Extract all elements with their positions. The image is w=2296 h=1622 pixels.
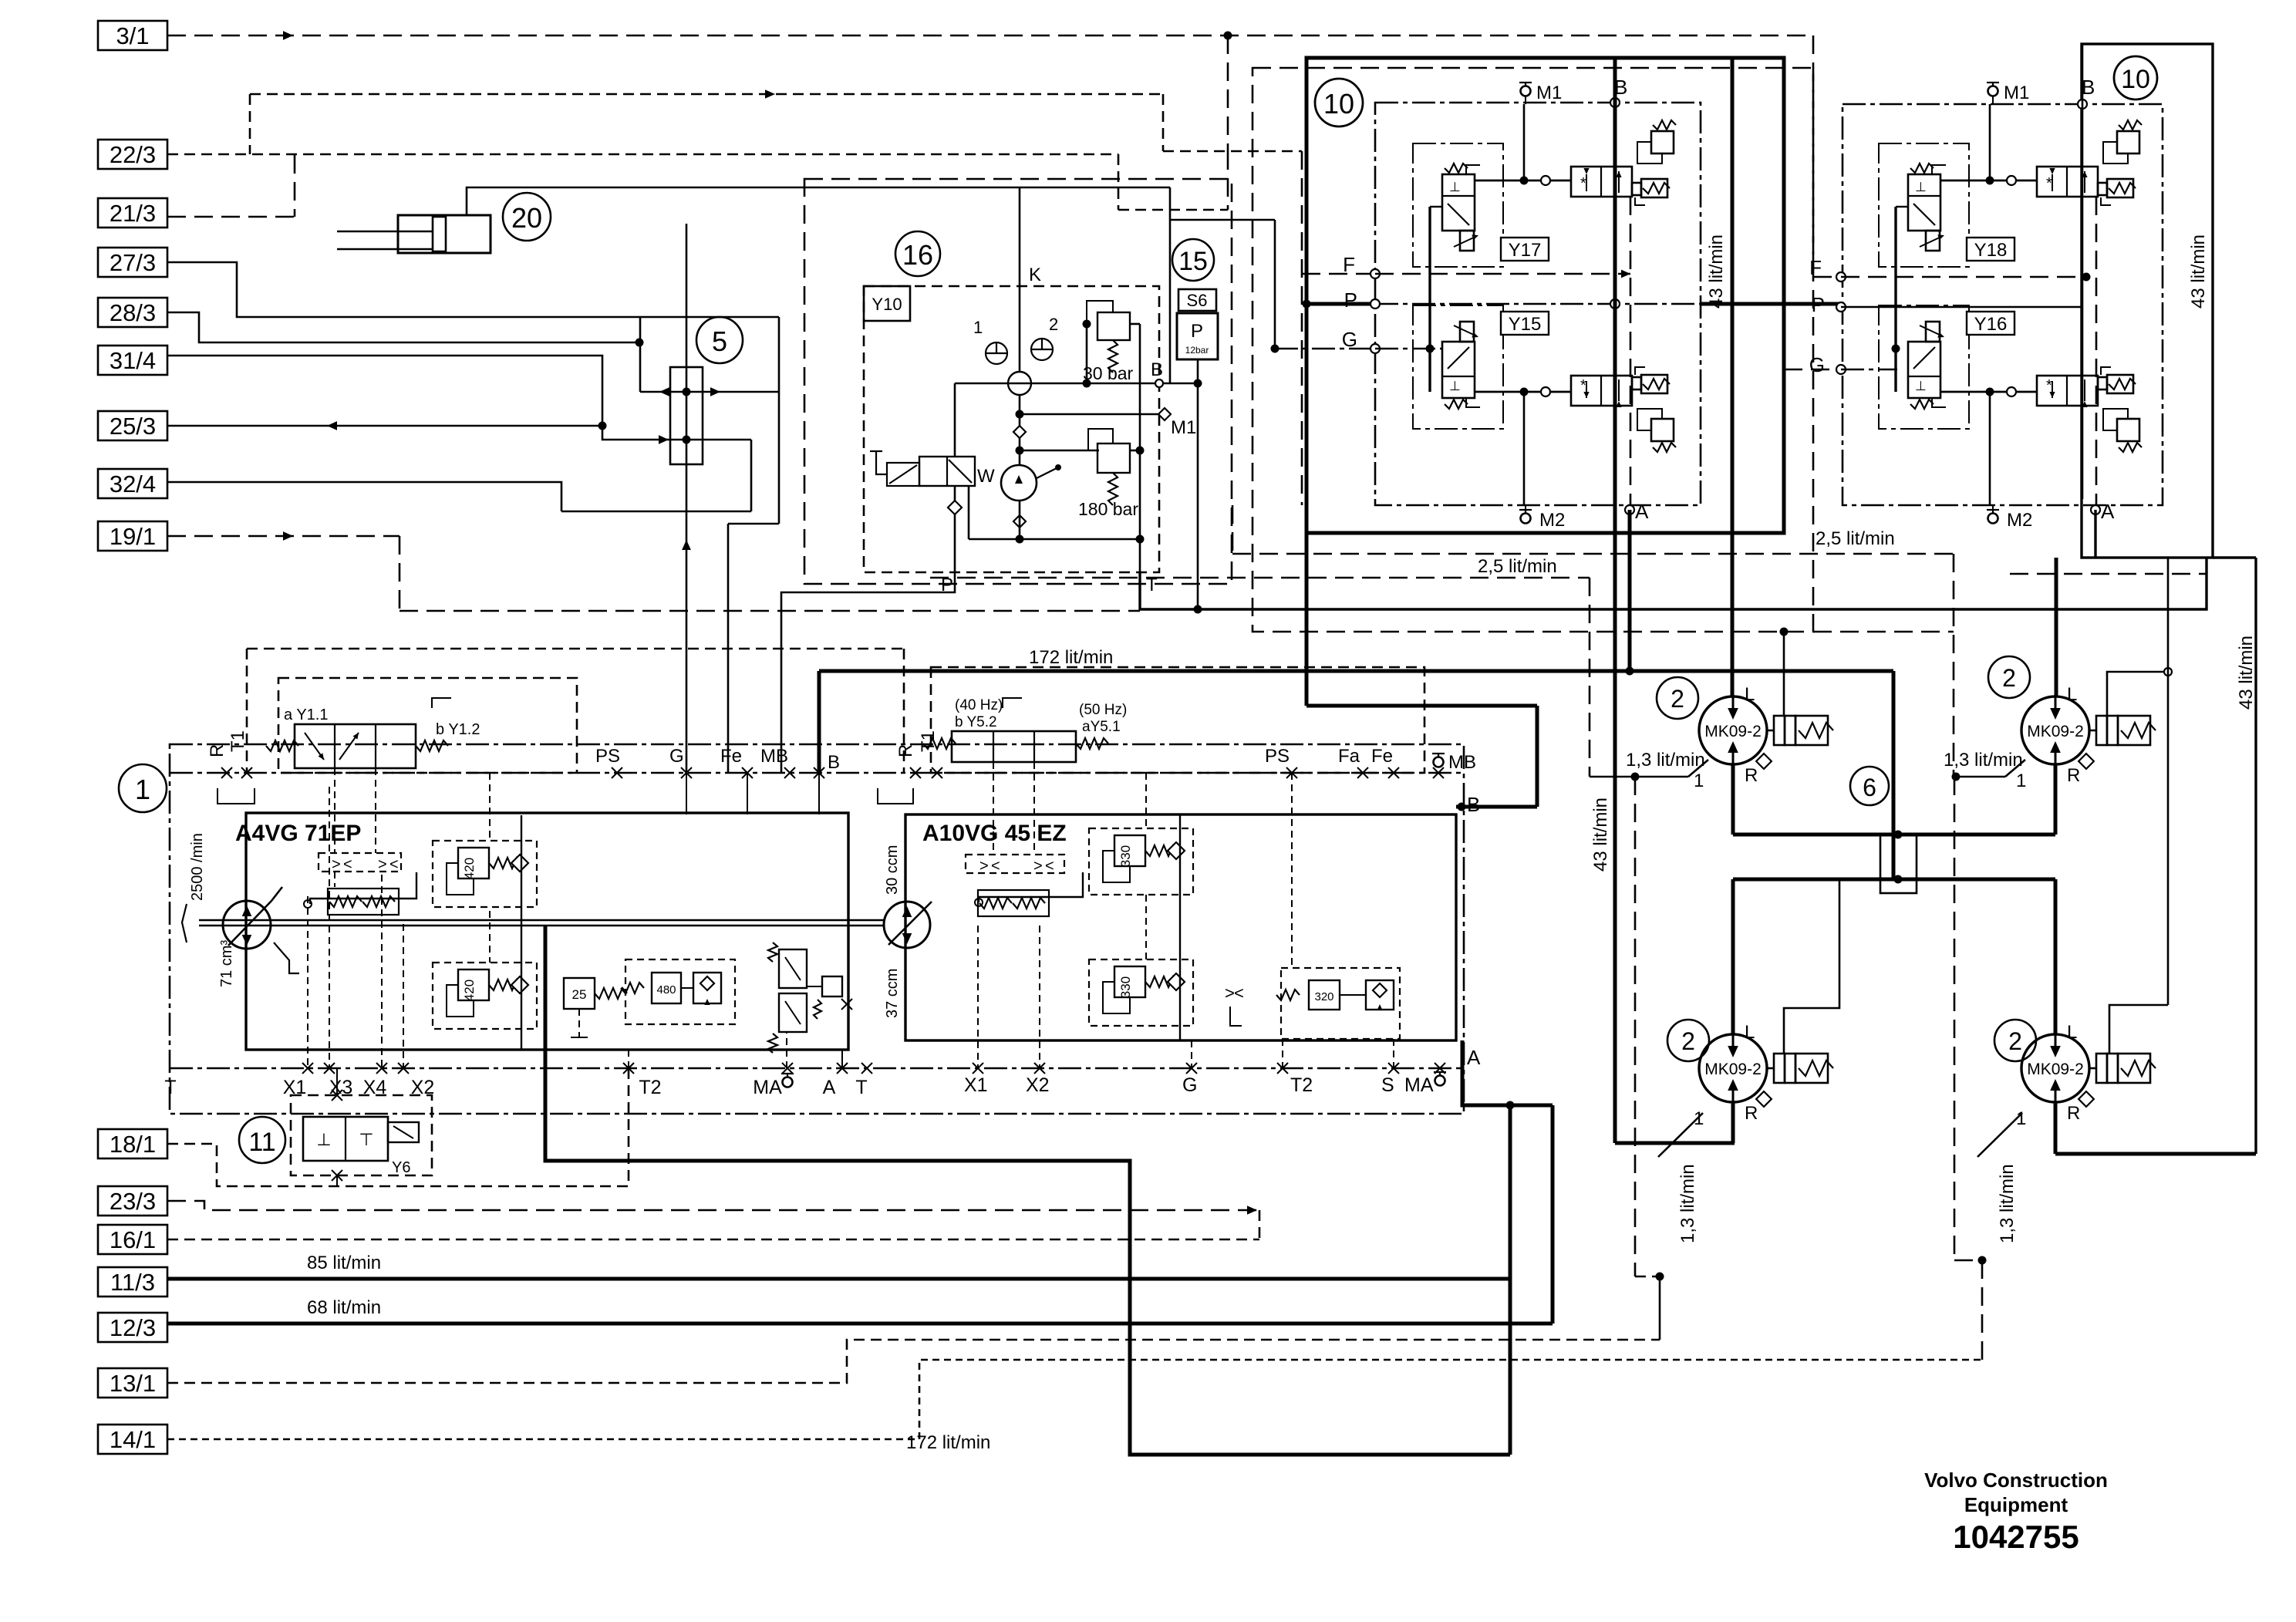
svg-text:12/3: 12/3 <box>110 1314 156 1341</box>
svg-text:1: 1 <box>1694 771 1704 791</box>
svg-text:14/1: 14/1 <box>110 1426 156 1453</box>
svg-text:Fa: Fa <box>1338 746 1360 767</box>
svg-text:2500 /min: 2500 /min <box>189 833 206 901</box>
svg-text:Equipment: Equipment <box>1964 1493 2068 1516</box>
svg-text:1042755: 1042755 <box>1953 1519 2079 1555</box>
svg-text:23/3: 23/3 <box>110 1188 156 1215</box>
svg-text:PS: PS <box>1265 746 1290 767</box>
svg-text:A10VG 45 EZ: A10VG 45 EZ <box>922 821 1067 846</box>
svg-text:Y10: Y10 <box>872 295 902 314</box>
svg-text:Y17: Y17 <box>1509 240 1542 261</box>
svg-text:11/3: 11/3 <box>110 1269 155 1296</box>
svg-text:M2: M2 <box>1539 510 1565 531</box>
svg-text:1,3 lit/min: 1,3 lit/min <box>1677 1164 1698 1243</box>
svg-text:X2: X2 <box>1026 1074 1050 1096</box>
svg-text:T: T <box>855 1077 867 1098</box>
svg-text:⊥: ⊥ <box>1915 379 1927 393</box>
svg-text:PS: PS <box>595 746 620 767</box>
svg-text:37 ccm: 37 ccm <box>884 969 901 1018</box>
svg-text:MA: MA <box>1404 1074 1434 1096</box>
svg-text:2,5 lit/min: 2,5 lit/min <box>1816 528 1895 549</box>
svg-text:18/1: 18/1 <box>110 1131 156 1158</box>
svg-text:1: 1 <box>1694 1108 1704 1129</box>
svg-text:F: F <box>1809 256 1822 279</box>
svg-text:15: 15 <box>1178 247 1208 276</box>
svg-text:G: G <box>1342 328 1357 351</box>
svg-text:T2: T2 <box>1290 1074 1313 1096</box>
svg-text:2: 2 <box>1681 1027 1695 1055</box>
svg-text:43 lit/min: 43 lit/min <box>1706 234 1727 309</box>
svg-text:172 lit/min: 172 lit/min <box>1029 647 1113 668</box>
svg-text:12bar: 12bar <box>1185 345 1209 356</box>
svg-text:2: 2 <box>2002 664 2016 692</box>
svg-text:*: * <box>2046 377 2052 394</box>
svg-text:*: * <box>1580 175 1586 192</box>
svg-text:5: 5 <box>712 325 727 357</box>
svg-text:B: B <box>828 752 840 773</box>
svg-text:180 bar: 180 bar <box>1078 499 1138 519</box>
svg-text:W: W <box>977 466 995 487</box>
svg-text:2,5 lit/min: 2,5 lit/min <box>1478 556 1557 577</box>
svg-text:⊥: ⊥ <box>316 1130 331 1149</box>
svg-text:1,3 lit/min: 1,3 lit/min <box>1944 750 2023 771</box>
svg-text:11: 11 <box>248 1128 275 1157</box>
svg-text:b Y5.2: b Y5.2 <box>955 714 997 730</box>
svg-text:19/1: 19/1 <box>110 523 156 550</box>
svg-text:>: > <box>378 856 387 873</box>
svg-text:aY5.1: aY5.1 <box>1082 719 1121 735</box>
svg-text:G: G <box>1182 1074 1197 1096</box>
svg-text:30 bar: 30 bar <box>1083 363 1134 383</box>
svg-text:<: < <box>1045 858 1054 875</box>
svg-text:<: < <box>343 856 352 873</box>
svg-text:28/3: 28/3 <box>110 299 156 326</box>
svg-text:R: R <box>2067 1103 2080 1124</box>
svg-text:13/1: 13/1 <box>110 1370 156 1397</box>
svg-text:R: R <box>207 744 228 757</box>
svg-text:68 lit/min: 68 lit/min <box>307 1297 381 1318</box>
svg-text:*: * <box>2046 175 2052 192</box>
svg-text:K: K <box>1029 265 1041 285</box>
svg-text:<: < <box>1234 983 1244 1003</box>
svg-text:⊥: ⊥ <box>1915 180 1927 194</box>
svg-text:2: 2 <box>2008 1027 2022 1055</box>
svg-text:1: 1 <box>2016 771 2026 791</box>
svg-text:10: 10 <box>1323 88 1354 120</box>
svg-text:M2: M2 <box>2007 510 2032 531</box>
svg-text:MK09-2: MK09-2 <box>1704 723 1762 740</box>
svg-text:A: A <box>2101 500 2115 523</box>
svg-text:16: 16 <box>902 239 933 271</box>
svg-text:Y16: Y16 <box>1974 314 2008 335</box>
svg-text:420: 420 <box>462 858 477 879</box>
svg-text:>: > <box>979 858 989 875</box>
svg-text:2: 2 <box>1671 685 1684 713</box>
svg-text:F: F <box>1343 253 1355 276</box>
svg-text:22/3: 22/3 <box>110 141 156 168</box>
svg-text:3/1: 3/1 <box>116 22 149 49</box>
svg-text:⊥: ⊥ <box>1449 379 1461 393</box>
svg-text:b Y1.2: b Y1.2 <box>436 721 480 738</box>
svg-text:MB: MB <box>760 746 788 767</box>
svg-text:S6: S6 <box>1187 291 1208 310</box>
svg-text:⊥: ⊥ <box>1449 180 1461 194</box>
svg-text:A4VG 71EP: A4VG 71EP <box>235 821 361 846</box>
svg-text:43 lit/min: 43 lit/min <box>1590 798 1611 872</box>
svg-text:A: A <box>1635 500 1649 523</box>
svg-text:X1: X1 <box>964 1074 988 1096</box>
svg-text:420: 420 <box>462 980 477 1001</box>
svg-text:320: 320 <box>1314 990 1333 1003</box>
svg-text:a Y1.1: a Y1.1 <box>284 706 328 723</box>
svg-text:M1: M1 <box>1171 417 1196 438</box>
svg-text:L: L <box>1745 684 1755 705</box>
svg-text:P: P <box>1344 288 1357 312</box>
svg-text:R: R <box>1745 765 1758 786</box>
svg-text:(50 Hz): (50 Hz) <box>1079 702 1127 718</box>
svg-text:Y15: Y15 <box>1509 314 1542 335</box>
svg-text:43 lit/min: 43 lit/min <box>2188 234 2209 309</box>
svg-text:B: B <box>1151 359 1163 380</box>
svg-text:R: R <box>1745 1103 1758 1124</box>
svg-text:T: T <box>164 1077 176 1098</box>
svg-text:16/1: 16/1 <box>110 1226 156 1253</box>
svg-text:21/3: 21/3 <box>110 200 156 227</box>
svg-text:85 lit/min: 85 lit/min <box>307 1253 381 1273</box>
svg-text:T2: T2 <box>639 1077 661 1098</box>
svg-text:MK09-2: MK09-2 <box>2027 1061 2084 1078</box>
svg-text:B: B <box>1467 793 1480 816</box>
svg-text:P: P <box>1191 321 1203 342</box>
svg-text:27/3: 27/3 <box>110 249 156 276</box>
svg-text:1,3 lit/min: 1,3 lit/min <box>1626 750 1705 771</box>
svg-text:480: 480 <box>656 983 676 996</box>
svg-text:L: L <box>2067 684 2077 705</box>
svg-text:20: 20 <box>511 202 542 234</box>
svg-text:172 lit/min: 172 lit/min <box>906 1432 990 1453</box>
svg-text:Fe: Fe <box>1371 746 1393 767</box>
svg-text:43 lit/min: 43 lit/min <box>2236 636 2257 710</box>
svg-text:71 cm³: 71 cm³ <box>218 940 235 987</box>
svg-text:330: 330 <box>1118 976 1133 998</box>
svg-text:G: G <box>669 746 684 767</box>
svg-text:M1: M1 <box>1536 83 1562 103</box>
svg-text:31/4: 31/4 <box>110 347 156 374</box>
svg-text:T1: T1 <box>228 730 248 752</box>
svg-text:P: P <box>1812 293 1825 316</box>
svg-text:Volvo Construction: Volvo Construction <box>1924 1469 2108 1492</box>
svg-text:6: 6 <box>1863 774 1876 801</box>
svg-text:M1: M1 <box>2004 83 2029 103</box>
svg-text:10: 10 <box>2121 65 2150 94</box>
svg-text:MA: MA <box>753 1077 782 1098</box>
svg-text:32/4: 32/4 <box>110 470 156 497</box>
svg-text:25/3: 25/3 <box>110 413 156 440</box>
svg-text:⊤: ⊤ <box>359 1130 373 1149</box>
svg-text:30 ccm: 30 ccm <box>884 845 901 895</box>
svg-text:(40 Hz): (40 Hz) <box>955 697 1003 713</box>
svg-text:Fe: Fe <box>720 746 742 767</box>
svg-text:>: > <box>332 856 341 873</box>
svg-text:>: > <box>1225 983 1235 1003</box>
svg-text:L: L <box>1745 1022 1755 1043</box>
svg-text:>: > <box>1033 858 1043 875</box>
svg-text:B: B <box>2082 76 2095 99</box>
svg-text:25: 25 <box>572 987 587 1002</box>
svg-text:A: A <box>1467 1046 1481 1069</box>
svg-text:<: < <box>389 856 399 873</box>
svg-text:2: 2 <box>1049 315 1058 334</box>
svg-text:MB: MB <box>1448 752 1476 773</box>
svg-text:R: R <box>895 744 916 757</box>
svg-text:*: * <box>1580 377 1586 394</box>
svg-text:1,3 lit/min: 1,3 lit/min <box>1997 1164 2018 1243</box>
svg-text:L: L <box>2067 1022 2077 1043</box>
svg-text:330: 330 <box>1118 845 1133 867</box>
svg-text:G: G <box>1809 353 1825 376</box>
svg-text:<: < <box>991 858 1000 875</box>
svg-text:R: R <box>2067 765 2080 786</box>
svg-text:MK09-2: MK09-2 <box>2027 723 2084 740</box>
svg-text:S: S <box>1381 1074 1394 1096</box>
svg-text:Y6: Y6 <box>392 1159 410 1176</box>
svg-text:1: 1 <box>135 774 150 805</box>
svg-text:MK09-2: MK09-2 <box>1704 1061 1762 1078</box>
svg-text:A: A <box>823 1077 836 1098</box>
svg-text:Y18: Y18 <box>1974 240 2008 261</box>
svg-text:1: 1 <box>973 318 983 337</box>
